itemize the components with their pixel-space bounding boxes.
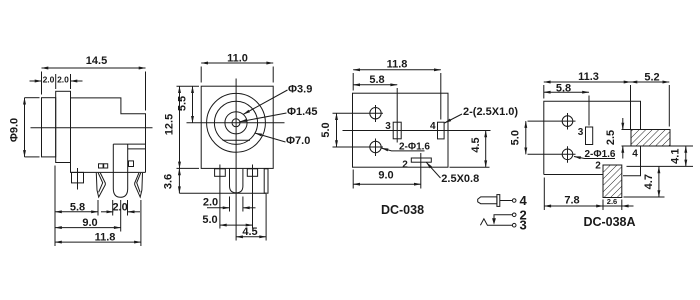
view3 slot 2 xyxy=(411,158,431,162)
svg-text:5.5: 5.5 xyxy=(177,96,189,111)
svg-text:2: 2 xyxy=(595,160,601,171)
leader phi1.45 xyxy=(240,113,287,122)
svg-text:3: 3 xyxy=(578,127,584,138)
dim 11.8 view3 xyxy=(353,69,441,71)
leader phi3.9 xyxy=(243,90,287,114)
svg-text:2.5X0.8: 2.5X0.8 xyxy=(441,173,479,185)
dim 5.8 view1 xyxy=(55,211,98,213)
view2 right pin xyxy=(247,169,257,177)
dim 3.6 xyxy=(178,168,180,193)
svg-text:2.6: 2.6 xyxy=(607,197,617,206)
view1 middle pin xyxy=(113,144,127,197)
dim phi9.0 line xyxy=(24,98,26,157)
view1 barrel xyxy=(42,98,56,157)
view3 hole ext lines xyxy=(333,112,384,114)
dim 12.5 xyxy=(179,86,181,168)
dim 4.7 view4 xyxy=(658,166,660,197)
symbol wire 2 xyxy=(494,215,512,219)
svg-text:Φ1.45: Φ1.45 xyxy=(287,106,317,118)
svg-text:2: 2 xyxy=(402,160,408,171)
view1 body outline xyxy=(71,98,146,172)
view1 front pin xyxy=(72,172,84,183)
symbol terminal circle 4 xyxy=(512,199,516,203)
svg-text:4.5: 4.5 xyxy=(470,137,482,152)
view3 body xyxy=(353,93,449,167)
svg-text:Φ3.9: Φ3.9 xyxy=(288,84,312,96)
view2 body xyxy=(201,86,273,168)
view2 circle phi7 xyxy=(214,101,257,144)
svg-text:4.5: 4.5 xyxy=(242,226,257,238)
view3 hole top xyxy=(370,108,381,119)
svg-text:DC-038: DC-038 xyxy=(381,203,424,217)
dim 5.0 view2 xyxy=(220,224,253,226)
svg-text:4.7: 4.7 xyxy=(643,174,655,189)
svg-text:5.0: 5.0 xyxy=(202,214,217,226)
symbol center pin bullet xyxy=(478,197,497,204)
dim 2.0 2.0 top lines xyxy=(30,80,42,82)
view3 pin 4 xyxy=(438,122,445,139)
view3 pin 3 xyxy=(393,122,401,139)
svg-text:5.2: 5.2 xyxy=(644,71,659,83)
view2 2.0 ext lines xyxy=(229,197,231,212)
svg-text:4: 4 xyxy=(520,193,528,208)
view2 center pin xyxy=(230,169,243,193)
svg-text:2.0: 2.0 xyxy=(43,75,55,85)
label 2.5X0.8 leader xyxy=(426,162,440,178)
svg-text:4: 4 xyxy=(632,149,638,160)
svg-text:2.0: 2.0 xyxy=(112,201,127,213)
svg-text:2.0: 2.0 xyxy=(57,75,69,85)
svg-text:9.0: 9.0 xyxy=(82,217,97,229)
dim 5.2 view4 xyxy=(631,81,670,83)
svg-text:12.5: 12.5 xyxy=(164,114,176,135)
view4 hole ext lines xyxy=(528,120,576,122)
view1 latch holes xyxy=(99,164,104,168)
view2 horizontal center line xyxy=(187,122,285,124)
symbol wire 3 with spring xyxy=(480,219,512,225)
dim 9.0 view1 xyxy=(55,227,121,229)
view4 pin 4 hatched bar xyxy=(631,130,670,147)
svg-text:11.3: 11.3 xyxy=(578,71,599,83)
dim 2.0 view1 bottom xyxy=(101,211,113,213)
dim 5.0 view3 xyxy=(336,113,338,147)
svg-text:2-(2.5X1.0): 2-(2.5X1.0) xyxy=(463,106,518,118)
dim 2.5 view4 xyxy=(622,118,624,130)
dim 11.0 xyxy=(201,62,273,64)
svg-text:4: 4 xyxy=(430,121,436,132)
svg-text:9.0: 9.0 xyxy=(378,170,393,182)
svg-text:5.0: 5.0 xyxy=(510,130,522,145)
dim 4.5 view2 xyxy=(236,236,266,238)
svg-text:5.8: 5.8 xyxy=(556,82,571,94)
view2 circle phi3.9 xyxy=(225,112,247,134)
view2 left pin xyxy=(215,169,226,177)
view1 center line xyxy=(31,127,153,129)
view4 hole top xyxy=(562,116,573,127)
svg-text:11.0: 11.0 xyxy=(227,53,248,65)
svg-text:5.8: 5.8 xyxy=(369,74,384,86)
view3 center line xyxy=(343,130,491,132)
dim 9.0 view3 xyxy=(353,183,421,185)
dim 11.3 view4 xyxy=(544,81,631,83)
view1 small square hole xyxy=(129,161,134,167)
view1 flange xyxy=(56,91,71,162)
dim 7.8 view4 xyxy=(544,205,603,207)
view2 circle phi1.45 xyxy=(232,119,240,127)
svg-text:14.5: 14.5 xyxy=(86,55,107,67)
dim 5.0 view4 xyxy=(525,121,527,154)
view2 vertical center line xyxy=(235,79,237,241)
view1 bottom extension lines xyxy=(54,166,56,247)
leader phi7.0 xyxy=(255,133,285,142)
svg-text:5.8: 5.8 xyxy=(70,201,85,213)
svg-text:DC-038A: DC-038A xyxy=(583,215,635,229)
view1 left claw leg xyxy=(96,173,105,197)
symbol crossbar xyxy=(497,195,500,207)
view2 thin pin xyxy=(264,169,268,193)
view2 chord flat xyxy=(223,139,251,141)
dim 2.6 view4 xyxy=(603,205,622,207)
svg-text:2.5: 2.5 xyxy=(605,130,617,145)
view2 circle phi9 xyxy=(207,93,266,152)
dim 14.5 line xyxy=(42,67,146,69)
dim 5.8 view4 xyxy=(544,91,589,93)
svg-text:3: 3 xyxy=(385,121,391,132)
symbol terminal circle 2 xyxy=(512,213,516,217)
symbol terminal circle 3 xyxy=(512,223,516,227)
svg-text:2.0: 2.0 xyxy=(203,196,218,208)
svg-text:Φ7.0: Φ7.0 xyxy=(286,135,310,147)
svg-text:3.6: 3.6 xyxy=(163,174,175,189)
svg-text:3: 3 xyxy=(520,218,527,233)
view3 hole bottom xyxy=(370,141,381,152)
view4 hole bottom xyxy=(562,149,573,160)
svg-text:5.0: 5.0 xyxy=(320,122,332,137)
svg-text:4.1: 4.1 xyxy=(670,149,682,164)
symbol arrow 2 xyxy=(492,218,496,224)
dim 11.8 view1 xyxy=(55,241,141,243)
svg-text:11.8: 11.8 xyxy=(95,231,116,243)
dim 5.5 xyxy=(192,86,194,123)
svg-text:7.8: 7.8 xyxy=(564,195,579,207)
dim 5.8 view3 xyxy=(353,84,397,86)
dim 4.1 view4 xyxy=(670,145,693,147)
svg-text:Φ9.0: Φ9.0 xyxy=(9,118,21,142)
view4 body outline xyxy=(544,101,641,175)
dim 2.0 view2 xyxy=(207,207,230,209)
label 2-(2.5X1.0) xyxy=(445,114,463,123)
symbol wire 4 xyxy=(500,200,513,202)
dim 4.5 view3 xyxy=(485,131,487,168)
view4 pin 2 hatched xyxy=(603,165,622,198)
view4 pin 3 xyxy=(586,127,593,145)
view1 right claw leg xyxy=(135,173,143,197)
view1 bracket plate lines xyxy=(113,144,145,149)
svg-text:11.8: 11.8 xyxy=(387,59,408,71)
